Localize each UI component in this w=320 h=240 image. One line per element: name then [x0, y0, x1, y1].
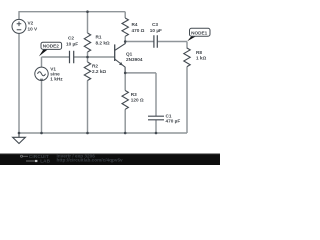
wire R1 top lead: [87, 12, 89, 33]
svg-text:C3: C3: [152, 22, 158, 27]
svg-text:Q1: Q1: [126, 51, 133, 56]
svg-text:10 µF: 10 µF: [150, 28, 162, 33]
wire R3 top lead: [124, 73, 126, 91]
svg-text:http://circuitlab.com/c/4qpv5v: http://circuitlab.com/c/4qpv5v: [57, 158, 124, 163]
node NODE1 callout: [187, 28, 210, 41]
wire R1 bottom lead: [87, 52, 89, 57]
svg-text:10 V: 10 V: [28, 27, 39, 32]
node NODE2 callout: [39, 42, 62, 56]
wire bottom rail: [19, 132, 187, 134]
label R1: [96, 35, 110, 46]
transistor Q1: [114, 44, 116, 61]
resistor R2: [84, 62, 90, 81]
svg-text:R1: R1: [96, 35, 102, 40]
wire emitter horizontal: [125, 72, 156, 74]
label V2: [28, 21, 39, 32]
label R8: [196, 50, 207, 61]
svg-text:C2: C2: [68, 35, 74, 40]
capacitor C2: [70, 51, 74, 64]
label V1: [50, 67, 63, 82]
wire R3 bottom lead: [124, 109, 126, 133]
svg-text:R2: R2: [92, 64, 98, 69]
label C1: [166, 113, 181, 123]
wire V1 top stub: [41, 57, 43, 67]
wire R8 top lead: [186, 42, 188, 49]
svg-text:NODE2: NODE2: [43, 44, 60, 49]
label R2: [92, 64, 106, 75]
ground: [13, 133, 26, 144]
label R4: [132, 22, 145, 33]
wire collector node to C3: [125, 41, 154, 43]
wire R2 bottom lead: [87, 81, 89, 134]
svg-text:1 kΩ: 1 kΩ: [196, 56, 207, 61]
wire top rail: [19, 11, 125, 13]
wire C3 to output corner: [158, 41, 187, 43]
label Q1: [126, 51, 143, 62]
node junction dots: [18, 10, 158, 134]
resistor R4: [122, 18, 128, 36]
wire base right segment: [74, 56, 115, 58]
wire left rail lower: [18, 33, 20, 133]
label R3: [131, 92, 144, 102]
wire R4 bottom lead: [124, 36, 126, 41]
voltage source V2: [12, 19, 26, 33]
voltage source V1 (sine): [35, 67, 48, 80]
capacitor C3: [154, 35, 157, 48]
wire R4 top lead: [124, 12, 126, 18]
svg-text:LAB: LAB: [40, 158, 50, 163]
wire C1 top lead: [155, 73, 157, 116]
svg-text:470 µF: 470 µF: [166, 118, 181, 123]
svg-text:120 Ω: 120 Ω: [131, 97, 144, 102]
svg-text:470 Ω: 470 Ω: [132, 28, 145, 33]
svg-text:V2: V2: [28, 21, 34, 26]
svg-text:2.2 kΩ: 2.2 kΩ: [92, 69, 106, 74]
wire left rail upper: [18, 11, 20, 19]
wire V1 bottom stub: [41, 80, 43, 133]
svg-text:R4: R4: [132, 22, 138, 27]
svg-text:NODE1: NODE1: [191, 30, 208, 35]
capacitor C1: [148, 116, 164, 120]
svg-text:R3: R3: [131, 92, 137, 97]
label C2: [66, 35, 78, 46]
svg-text:1 kHz: 1 kHz: [50, 76, 63, 81]
svg-text:2N3904: 2N3904: [126, 57, 143, 62]
wire base left segment: [42, 56, 70, 58]
resistor R1: [84, 33, 90, 52]
svg-text:R8: R8: [196, 50, 202, 55]
wire C1 bottom lead: [155, 120, 157, 133]
svg-text:8.2 kΩ: 8.2 kΩ: [96, 41, 110, 46]
label C3: [150, 22, 162, 33]
resistor R3: [122, 91, 128, 110]
svg-text:10 µF: 10 µF: [66, 41, 78, 46]
wire R2 top lead: [87, 57, 89, 62]
footer bar: [0, 153, 220, 165]
resistor R8: [184, 48, 190, 67]
wire R8 bottom lead: [186, 67, 188, 133]
